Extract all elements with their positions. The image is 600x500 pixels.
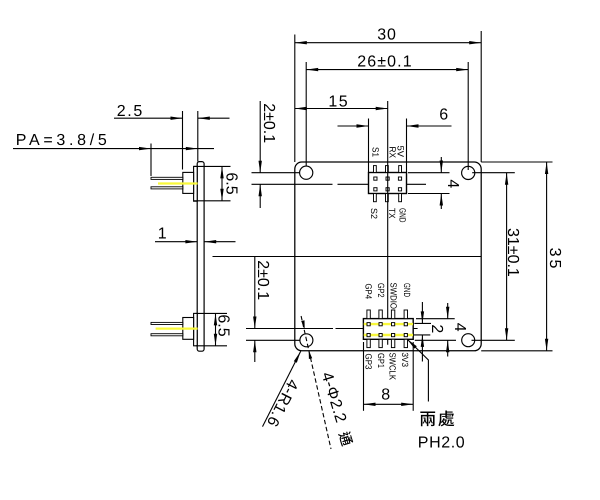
mounting hole bottom-right [462, 334, 475, 347]
dim 2±0.1 bottom upper tail [254, 257, 256, 329]
bottom pin header body [363, 319, 413, 340]
bottom header yellow wire row 2 [364, 334, 413, 336]
ext line at connector body left [182, 111, 184, 170]
board centre line [213, 256, 482, 258]
dim 35 line [546, 162, 548, 351]
dim 30 line [295, 42, 481, 44]
hidden wire line bottom (dash 1) [246, 328, 333, 330]
dim 8 line [364, 403, 414, 405]
ext line top of flange [194, 165, 231, 167]
dim 4 bottom tail [440, 194, 442, 210]
ext line body right down [412, 342, 414, 411]
svg-text:1: 1 [158, 226, 167, 243]
hole centre line bottom-mid segment [415, 339, 456, 341]
ext line row2 [414, 334, 430, 336]
dim 1 line left [155, 241, 197, 243]
svg-text:3V3: 3V3 [400, 353, 410, 368]
top pin header body [369, 173, 407, 194]
leader 4-R1.6 [263, 351, 301, 426]
svg-text:GND: GND [398, 208, 408, 223]
bottom header contact square [392, 323, 395, 326]
dim 6 line left [338, 125, 369, 127]
dim 1 line right [204, 241, 235, 243]
dim 6 line right [407, 125, 452, 127]
svg-text:6: 6 [439, 106, 448, 123]
side view: top connector flange [194, 166, 198, 201]
ext line header left edge up [368, 119, 370, 173]
ext line board left edge up [294, 35, 296, 163]
ext line board top right [481, 161, 552, 163]
ext line board bottom right [481, 350, 552, 352]
svg-text:8: 8 [381, 386, 390, 403]
bottom header pin (down) [379, 339, 382, 347]
svg-text:SWDIO: SWDIO [389, 283, 399, 310]
ext line body top right [416, 318, 455, 320]
svg-text:2±0.1: 2±0.1 [254, 260, 271, 300]
dim 2 top tail [421, 302, 423, 323]
side view: PCB edge strip [197, 162, 204, 352]
svg-text:GP4: GP4 [364, 284, 374, 300]
ext line body left down [363, 342, 365, 411]
ext line row1 [414, 322, 431, 324]
ext line header bottom right [408, 193, 450, 195]
svg-text:4: 4 [444, 179, 461, 188]
leader PH2.0 [407, 339, 428, 402]
leader line PA [13, 148, 214, 150]
svg-text:2: 2 [428, 324, 445, 333]
bottom header pin (up) [391, 310, 394, 319]
mounting hole bottom-left [300, 334, 313, 347]
svg-text:PH2.0: PH2.0 [418, 434, 465, 451]
dim 6.5 bottom line [215, 313, 217, 345]
ext line header right edge up [406, 119, 408, 173]
bottom header contact square [404, 334, 407, 337]
svg-text:5V: 5V [395, 146, 405, 158]
label glyph 兩 (two) [420, 411, 435, 426]
dim 6.5 top line [221, 166, 223, 200]
label glyph 通 [338, 430, 354, 447]
svg-text:30: 30 [377, 26, 396, 43]
side view: top connector pin 2 [151, 187, 183, 189]
svg-text:TX: TX [387, 208, 397, 219]
side view: bottom connector pin 2 [151, 334, 183, 336]
svg-text:GND: GND [402, 283, 412, 297]
top header pin (down) [386, 194, 389, 202]
side view: top connector body [183, 172, 194, 193]
side view: bottom connector yellow wire [156, 327, 198, 329]
ext line at pin tips [150, 144, 152, 177]
hidden wire line bottom (dash 2) [336, 328, 418, 330]
ext line top of bottom flange [196, 312, 227, 314]
ext line at PCB left edge [197, 111, 199, 162]
bottom header contact square [392, 334, 395, 337]
top header contact square [386, 177, 389, 180]
mounting hole top-right [462, 166, 475, 179]
svg-text:GP2: GP2 [376, 283, 386, 298]
side view: top connector yellow wire [158, 182, 198, 184]
hole centre line bottom-left segment [246, 339, 300, 341]
bottom header pin (down) [404, 339, 407, 347]
dim 31 line [506, 173, 508, 341]
dim 2.5 line right [198, 117, 230, 119]
hole centre line top-left segment [252, 172, 300, 174]
bottom header pin (up) [404, 310, 407, 319]
ext line header top / 4-dim [408, 172, 450, 174]
bottom header yellow wire row 1 [364, 323, 413, 325]
side view: bottom connector flange [194, 313, 198, 345]
header centre line [387, 101, 389, 345]
top header pin (up) [374, 166, 377, 173]
bottom header pin (down) [391, 339, 394, 347]
top header pin (down) [399, 194, 402, 202]
dim 2 bottom tail [421, 335, 423, 362]
side view: bottom connector body [183, 318, 194, 340]
arrowhead Φ2.2 lower [309, 350, 313, 359]
dim 2±0.1 bottom lower tail [254, 340, 256, 362]
ext line board right edge up [480, 31, 482, 162]
svg-text:4: 4 [451, 323, 468, 332]
svg-text:PA=3.8/5: PA=3.8/5 [16, 132, 111, 149]
dim 2±0.1 lower tail [259, 184, 261, 208]
top header pin (up) [386, 166, 389, 173]
bottom header contact square [367, 334, 370, 337]
hole centre line bottom-right segment [472, 339, 515, 341]
svg-text:GP1: GP1 [376, 353, 386, 368]
leader 4-Φ2.2 (dashed) [301, 316, 331, 449]
svg-text:S1: S1 [370, 147, 380, 157]
hidden wire line top (dash 2) [338, 183, 427, 185]
bottom header contact square [404, 323, 407, 326]
hidden wire line top (dash 1) [252, 183, 333, 185]
bottom header pin (down) [367, 339, 370, 347]
bottom header contact square [367, 323, 370, 326]
bottom header contact square [379, 323, 382, 326]
ext line bottom of bottom flange [196, 345, 227, 347]
svg-text:GP3: GP3 [364, 354, 374, 370]
bottom header pin (up) [379, 310, 382, 319]
svg-text:SWCLK: SWCLK [388, 353, 398, 381]
top header contact square [374, 177, 377, 180]
side view: top connector pin 1 [151, 177, 183, 179]
top header contact square [374, 188, 377, 191]
svg-text:2±0.1: 2±0.1 [260, 103, 277, 143]
dim 15 line [295, 108, 388, 110]
ext line left hole centre up [305, 62, 307, 166]
dim 2±0.1 upper tail [259, 101, 261, 173]
front view: PCB board outline [295, 162, 481, 351]
dim 4b bottom tail [447, 340, 449, 356]
bottom header contact square [379, 334, 382, 337]
side view: bottom connector pin 1 [151, 322, 183, 324]
svg-text:35: 35 [546, 248, 563, 272]
mounting hole top-left [300, 166, 313, 179]
svg-text:S2: S2 [369, 208, 379, 219]
dim 4 top tail [440, 157, 442, 173]
dim 26 line [306, 69, 468, 71]
ext line right hole centre up [467, 62, 469, 170]
hole centre line top-right segment [472, 172, 515, 174]
ext line bottom of flange [194, 200, 231, 202]
dim 4b top tail [447, 303, 449, 319]
svg-text:6.5: 6.5 [223, 172, 240, 194]
top header pin (up) [399, 166, 402, 173]
svg-text:26±0.1: 26±0.1 [357, 53, 412, 70]
dim 2.5 line left [114, 117, 183, 119]
label glyph 處 (places) [438, 410, 454, 426]
svg-text:6.5: 6.5 [215, 314, 232, 336]
top header contact square [398, 188, 401, 191]
bottom header pin (up) [367, 310, 370, 319]
svg-text:31±0.1: 31±0.1 [504, 228, 521, 277]
top header pin (down) [374, 194, 377, 202]
top header contact square [386, 188, 389, 191]
arrowhead Φ2.2 upper [301, 320, 305, 329]
top header contact square [398, 177, 401, 180]
svg-text:2.5: 2.5 [117, 103, 144, 120]
